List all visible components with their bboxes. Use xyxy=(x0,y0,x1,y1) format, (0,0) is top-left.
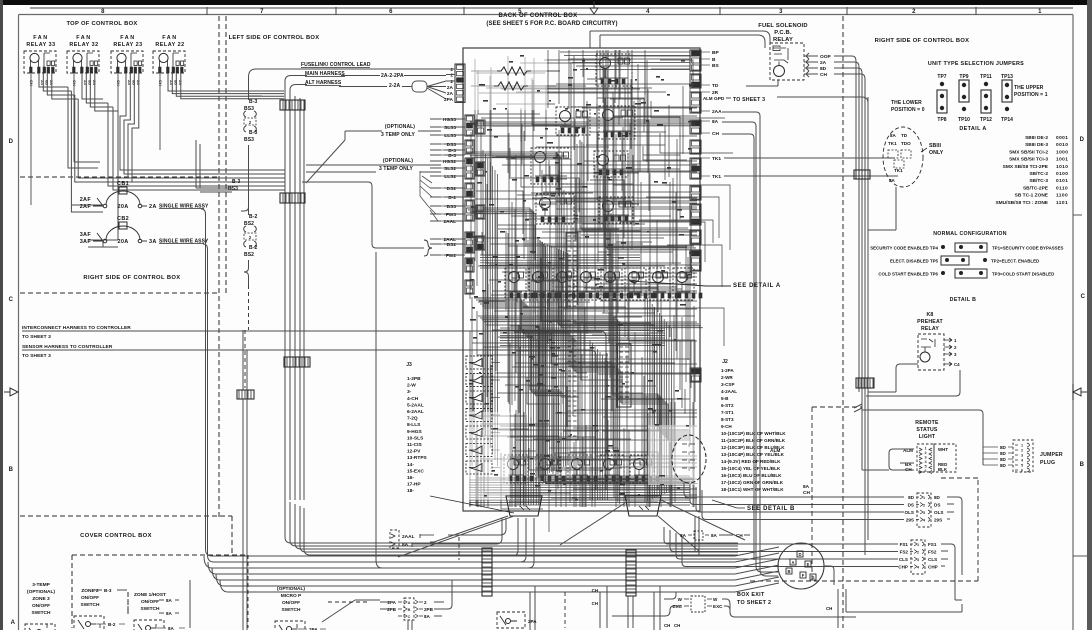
svg-text:POSITION = 0: POSITION = 0 xyxy=(891,107,925,113)
svg-text:0101: 0101 xyxy=(1056,178,1068,184)
connector J-left 12 xyxy=(476,236,485,250)
connector J-left 1 xyxy=(465,115,474,136)
svg-text:TO SHEET 3: TO SHEET 3 xyxy=(22,353,51,359)
partition dashed vertical right of back box xyxy=(842,16,844,628)
svg-text:8A: 8A xyxy=(890,133,897,138)
relay module K6 xyxy=(536,194,574,224)
svg-text:SB/TC-2PE: SB/TC-2PE xyxy=(1023,185,1049,191)
relay module K2 xyxy=(556,107,590,135)
svg-text:14-(9.3V) RED OF RED/BLK: 14-(9.3V) RED OF RED/BLK xyxy=(721,459,781,464)
svg-text:FAN: FAN xyxy=(162,35,178,41)
switch aux dashed box bottom center xyxy=(497,612,537,628)
svg-text:WHT: WHT xyxy=(938,447,948,452)
connector J-left 5 xyxy=(465,200,474,221)
svg-text:RELAY: RELAY xyxy=(921,326,939,332)
svg-text:11-CIS: 11-CIS xyxy=(407,442,422,448)
svg-text:1001: 1001 xyxy=(1056,157,1068,163)
svg-text:1: 1 xyxy=(1021,444,1023,448)
svg-text:C: C xyxy=(9,297,14,303)
connector J-left 10 xyxy=(476,162,485,176)
svg-text:1101: 1101 xyxy=(1056,200,1068,206)
svg-text:TO SHEET 3: TO SHEET 3 xyxy=(733,97,765,103)
wire 2AAL connector to plug xyxy=(434,518,506,544)
fan relay K33 wire labels xyxy=(29,80,54,86)
svg-text:2: 2 xyxy=(1021,449,1023,453)
svg-text:TK1: TK1 xyxy=(712,156,721,162)
relay module K3 xyxy=(599,106,635,139)
resistor R2 redraw xyxy=(494,82,528,90)
svg-text:BS3: BS3 xyxy=(447,204,457,210)
connector W/EXC inline xyxy=(612,592,856,617)
svg-text:FS1: FS1 xyxy=(900,542,909,547)
wire fuse column vertical xyxy=(244,96,262,285)
svg-text:16-(10C3) BLU OF BLU/BLK: 16-(10C3) BLU OF BLU/BLK xyxy=(721,473,782,478)
svg-text:6-2AAL: 6-2AAL xyxy=(407,409,424,415)
wire SBIII leader xyxy=(921,148,927,152)
wire main bottom bundle xyxy=(204,556,735,592)
svg-text:SMX SB/SII TCI-3: SMX SB/SII TCI-3 xyxy=(1009,157,1048,163)
svg-text:2A: 2A xyxy=(169,80,174,85)
svg-text:8A: 8A xyxy=(402,542,409,548)
svg-text:11-(10C2P) BLK OF GRN/BLK: 11-(10C2P) BLK OF GRN/BLK xyxy=(721,438,786,443)
svg-text:|: | xyxy=(688,458,689,463)
fan relay K30 wire labels xyxy=(158,80,183,86)
jumper TP13/TP14 xyxy=(1001,74,1013,123)
svg-text:2: 2 xyxy=(917,551,919,555)
svg-text:ON/OFF: ON/OFF xyxy=(282,600,300,606)
svg-text:2A: 2A xyxy=(447,91,454,97)
svg-text:2R: 2R xyxy=(712,90,719,96)
svg-text:SMU/SB/SII TCI : ZONE: SMU/SB/SII TCI : ZONE xyxy=(995,200,1048,206)
svg-text:PLUG: PLUG xyxy=(1040,460,1055,466)
connector J-right 6 xyxy=(690,158,701,179)
svg-text:1: 1 xyxy=(923,496,925,500)
svg-text:TP1=SECURITY CODE BYPASSES: TP1=SECURITY CODE BYPASSES xyxy=(992,246,1064,251)
svg-text:1: 1 xyxy=(917,543,919,547)
svg-text:D: D xyxy=(9,139,14,145)
svg-text:CB1: CB1 xyxy=(117,181,129,187)
svg-text:K8: K8 xyxy=(926,312,933,318)
wire J3 list leader xyxy=(430,496,514,513)
svg-text:BP: BP xyxy=(712,50,719,56)
wire CB outputs to right verticals xyxy=(201,209,735,562)
detail B redraw circle xyxy=(672,435,706,483)
wire mesh top feeders xyxy=(548,50,690,151)
svg-text:RIGHT SIDE OF CONTROL BOX: RIGHT SIDE OF CONTROL BOX xyxy=(83,275,180,281)
svg-text:REMOTE: REMOTE xyxy=(915,420,939,426)
svg-text:CH: CH xyxy=(592,601,598,606)
SBIII only dashed ellipse xyxy=(883,127,923,187)
svg-text:POSITION = 1: POSITION = 1 xyxy=(1014,92,1048,98)
node labels jumper plug 8D xyxy=(983,445,1013,468)
wire 8D conn right loops xyxy=(947,497,962,575)
svg-text:B-3: B-3 xyxy=(249,99,257,105)
connector J-left 4 xyxy=(465,183,474,197)
wire R33 to breakers xyxy=(71,205,118,247)
wire box exit right drop xyxy=(824,566,834,585)
svg-text:SBIII: SBIII xyxy=(929,143,941,149)
svg-text:8A: 8A xyxy=(166,598,173,603)
svg-text:RELAY 32: RELAY 32 xyxy=(69,42,98,48)
svg-text:3-TEMP: 3-TEMP xyxy=(32,582,50,588)
connector plug J3 (box bottom left) xyxy=(506,496,542,516)
back of control box outline xyxy=(463,48,700,511)
bracket 2AAL group xyxy=(424,240,432,256)
svg-text:BOX EXIT: BOX EXIT xyxy=(737,592,765,598)
svg-text:TDO: TDO xyxy=(901,141,911,146)
svg-text:2-W: 2-W xyxy=(407,383,416,389)
centerline datum top xyxy=(590,1,598,14)
wire mesh dense vertical bundles xyxy=(483,150,671,505)
svg-text:J3: J3 xyxy=(406,362,412,368)
svg-text:B: B xyxy=(787,569,790,574)
switch zone 1/host on/off xyxy=(134,592,185,630)
svg-text:FAN: FAN xyxy=(76,35,92,41)
svg-text:3 TEMP ONLY: 3 TEMP ONLY xyxy=(379,166,413,172)
svg-text:CH: CH xyxy=(158,80,163,86)
svg-text:COVER CONTROL BOX: COVER CONTROL BOX xyxy=(80,533,152,539)
svg-text:SWITCH: SWITCH xyxy=(32,610,51,616)
svg-text:7-ST1: 7-ST1 xyxy=(721,410,734,415)
svg-text:DS: DS xyxy=(934,503,940,508)
svg-text:RELAY 23: RELAY 23 xyxy=(113,42,142,48)
wire mesh back-of-box interior horizontals xyxy=(469,56,697,500)
svg-text:FW2: FW2 xyxy=(446,253,456,259)
connector hatch on trunk low xyxy=(237,390,254,399)
svg-text:2: 2 xyxy=(450,73,453,79)
svg-text:SB/TC-3: SB/TC-3 xyxy=(1029,178,1048,184)
svg-text:B: B xyxy=(712,57,716,63)
svg-text:8A: 8A xyxy=(166,611,173,616)
box exit pins xyxy=(786,551,816,580)
svg-text:CLS: CLS xyxy=(928,557,937,562)
relay fuel solenoid PCB xyxy=(770,43,804,80)
wire optional upper diagonal xyxy=(306,131,441,183)
wire trunk lines to east xyxy=(285,500,738,555)
svg-text:18-(10C1) WHT OF WHT/BLK: 18-(10C1) WHT OF WHT/BLK xyxy=(721,487,784,492)
svg-text:PREHEAT: PREHEAT xyxy=(917,319,943,325)
connector remote status light xyxy=(917,444,956,474)
connector J-right 2 xyxy=(690,74,701,88)
svg-text:TO SHEET 3: TO SHEET 3 xyxy=(22,334,51,340)
svg-text:TP12: TP12 xyxy=(980,117,992,123)
svg-text:CHP: CHP xyxy=(928,565,938,570)
connector hatch on trunk mid xyxy=(280,193,305,203)
relay module KB3 xyxy=(553,268,582,300)
fan relay K31 wire labels xyxy=(116,80,141,86)
svg-text:TP14: TP14 xyxy=(1001,117,1013,123)
svg-text:OLS: OLS xyxy=(934,510,943,515)
fuse F B-2/BS2 lower xyxy=(244,214,258,258)
svg-text:TO SHEET 2: TO SHEET 2 xyxy=(737,600,771,606)
wire see detail B leader xyxy=(712,500,745,508)
connector hatch on trunk upper xyxy=(280,100,305,110)
svg-text:3: 3 xyxy=(924,456,926,460)
svg-text:ON/OFF: ON/OFF xyxy=(141,599,159,605)
svg-text:W: W xyxy=(678,597,683,602)
svg-text:CH: CH xyxy=(712,131,719,137)
relay module KB5 xyxy=(601,268,630,300)
svg-text:3: 3 xyxy=(917,558,919,562)
svg-text:|: | xyxy=(688,442,689,447)
svg-text:TP2=ELECT. ENABLED: TP2=ELECT. ENABLED xyxy=(991,259,1039,264)
svg-text:LLS2: LLS2 xyxy=(444,174,456,180)
svg-text:ZONE 1/HOST: ZONE 1/HOST xyxy=(134,592,166,598)
svg-text:|: | xyxy=(688,450,689,455)
connector J-right 1 xyxy=(690,50,701,71)
svg-text:CH: CH xyxy=(826,606,832,611)
svg-text:16-: 16- xyxy=(407,475,414,481)
svg-text:FAN: FAN xyxy=(120,35,136,41)
sheet left scan bar xyxy=(0,0,3,630)
svg-text:8D: 8D xyxy=(1000,451,1007,456)
relay module KC2 xyxy=(536,455,565,483)
svg-text:9-HGS: 9-HGS xyxy=(407,429,422,435)
node list J3 xyxy=(406,362,427,494)
svg-text:2A-2-2PA: 2A-2-2PA xyxy=(381,73,404,79)
connector J-right 5 xyxy=(690,140,701,154)
wire optional lower xyxy=(306,165,441,172)
svg-text:ZONE 3: ZONE 3 xyxy=(32,596,50,602)
wire trunk jog xyxy=(854,404,862,412)
svg-text:0010: 0010 xyxy=(1056,142,1068,148)
svg-text:SB TC-1 ZONE: SB TC-1 ZONE xyxy=(1015,193,1049,199)
svg-text:1-2PB: 1-2PB xyxy=(407,376,421,382)
svg-text:8: 8 xyxy=(101,9,105,15)
connector box entry top-left xyxy=(455,64,465,102)
sheet top scan bar xyxy=(0,0,1092,5)
relay module KB8 xyxy=(673,268,702,300)
svg-text:BS3: BS3 xyxy=(228,186,238,192)
svg-text:B-3: B-3 xyxy=(249,130,257,136)
svg-text:FS2: FS2 xyxy=(900,550,909,555)
relay module K4 xyxy=(531,148,571,184)
svg-text:8D: 8D xyxy=(1000,463,1007,468)
svg-text:B-3: B-3 xyxy=(232,179,240,185)
svg-text:2: 2 xyxy=(424,600,427,605)
svg-text:DS: DS xyxy=(908,503,914,508)
svg-text:ALT HARNESS: ALT HARNESS xyxy=(305,80,342,86)
svg-text:CH: CH xyxy=(674,623,680,628)
svg-text:TD: TD xyxy=(901,133,908,138)
svg-text:B-3: B-3 xyxy=(104,588,112,593)
svg-text:MICRO P: MICRO P xyxy=(281,593,302,599)
svg-text:CH: CH xyxy=(803,490,810,496)
config row elect disabled xyxy=(890,256,1039,265)
svg-text:C: C xyxy=(1081,294,1086,300)
svg-text:TD: TD xyxy=(712,83,719,89)
svg-text:3: 3 xyxy=(923,511,925,515)
svg-text:2A: 2A xyxy=(127,80,132,85)
connector J-left 11 xyxy=(476,205,485,219)
svg-text:DETAIL B: DETAIL B xyxy=(950,297,977,303)
svg-text:0100: 0100 xyxy=(1056,171,1068,177)
svg-text:DS3: DS3 xyxy=(447,142,457,148)
svg-text:OOP: OOP xyxy=(820,54,831,60)
svg-text:EXC: EXC xyxy=(713,604,723,609)
svg-text:RELAY 33: RELAY 33 xyxy=(26,42,55,48)
connector J-right 10 xyxy=(690,250,701,271)
connector J-right 4 xyxy=(690,120,701,134)
wire mesh back-of-box interior verticals xyxy=(470,56,694,507)
svg-text:(SEE SHEET 5 FOR P.C. BOARD CI: (SEE SHEET 5 FOR P.C. BOARD CIRCUITRY) xyxy=(486,21,617,27)
svg-text:CLS: CLS xyxy=(899,557,908,562)
connector J-right 8 xyxy=(690,204,701,225)
wire mesh elbows xyxy=(476,60,733,532)
connector J-left 9 xyxy=(476,120,485,134)
svg-text:LEFT SIDE OF CONTROL BOX: LEFT SIDE OF CONTROL BOX xyxy=(229,35,320,41)
wire sensor harness xyxy=(22,350,596,490)
connector 8A-8A inline xyxy=(680,531,750,540)
svg-text:W: W xyxy=(713,597,718,602)
svg-text:TP9: TP9 xyxy=(959,74,968,80)
svg-text:HGS3: HGS3 xyxy=(443,117,456,123)
svg-text:8D: 8D xyxy=(1000,457,1007,462)
dashed boundary lower right xyxy=(750,407,978,581)
detail B dashed circle xyxy=(672,435,706,483)
svg-text:(OPTIONAL): (OPTIONAL) xyxy=(277,586,305,592)
relay module K7 xyxy=(599,197,633,223)
wire stair band xyxy=(474,298,690,440)
svg-text:ALM: ALM xyxy=(770,448,780,454)
svg-text:CH: CH xyxy=(29,80,34,86)
table unit type codes xyxy=(995,135,1068,206)
svg-text:RIGHT SIDE OF CONTROL BOX: RIGHT SIDE OF CONTROL BOX xyxy=(875,38,970,44)
partition dashed cover box left xyxy=(72,555,128,628)
svg-text:15-(10C4) YEL OF YEL/BLK: 15-(10C4) YEL OF YEL/BLK xyxy=(721,466,781,471)
jumper TP7/TP8 xyxy=(937,74,947,123)
svg-text:17-HP: 17-HP xyxy=(407,482,421,488)
wire remote light loop xyxy=(862,449,914,470)
svg-text:ALM: ALM xyxy=(703,96,713,101)
svg-text:8-ST3: 8-ST3 xyxy=(721,417,734,422)
wire bundle fan relays cascade xyxy=(39,73,285,240)
svg-text:STATUS: STATUS xyxy=(916,427,938,433)
svg-text:18-: 18- xyxy=(407,488,414,494)
wire mesh ribbon bundle center xyxy=(469,240,690,505)
connector FS1/FS2/CLS/CHP xyxy=(898,540,937,574)
wire J-left strips to box xyxy=(444,119,465,255)
svg-text:B: B xyxy=(9,467,14,473)
svg-text:TK1: TK1 xyxy=(894,168,903,173)
config row security code xyxy=(870,243,1063,252)
svg-text:20A: 20A xyxy=(118,204,129,210)
fan relay K30 xyxy=(153,51,185,73)
resistor R1 redraw xyxy=(497,67,531,75)
wire bundle fan into circle xyxy=(735,547,779,592)
svg-text:ON/OFF: ON/OFF xyxy=(81,595,99,601)
svg-text:(OPTIONAL): (OPTIONAL) xyxy=(385,124,415,130)
sheet right scan bar xyxy=(1087,0,1092,630)
detail B contents xyxy=(682,442,695,471)
jumper TP9/TP10 xyxy=(958,74,970,123)
svg-text:A: A xyxy=(791,560,794,565)
node labels right of box xyxy=(701,50,722,180)
svg-text:RELAY: RELAY xyxy=(773,37,793,43)
svg-text:15-EXC: 15-EXC xyxy=(407,468,424,474)
svg-text:SWITCH: SWITCH xyxy=(282,607,301,613)
wire fuse upper hook xyxy=(241,207,249,211)
svg-text:3 TEMP ONLY: 3 TEMP ONLY xyxy=(381,132,415,138)
strain relief loop xyxy=(412,81,427,92)
wire trunk junction top xyxy=(196,140,232,192)
svg-text:7: 7 xyxy=(260,9,264,15)
zone tick right border xyxy=(1073,215,1087,556)
wire resistor feeds xyxy=(471,71,560,86)
svg-text:2: 2 xyxy=(450,79,453,85)
connector 8D/DS/OLS/29S xyxy=(905,493,944,527)
node labels left of box xyxy=(441,117,456,259)
wire fuselink lead from fuse column xyxy=(249,69,447,96)
relay module K1 xyxy=(596,54,632,86)
svg-text:3: 3 xyxy=(779,9,783,15)
wire cover area feeds xyxy=(189,580,191,628)
svg-text:LLS3: LLS3 xyxy=(444,133,456,139)
svg-text:8A: 8A xyxy=(712,119,719,125)
svg-text:8A: 8A xyxy=(711,533,718,538)
centerline arrow right margin xyxy=(1073,384,1087,400)
svg-text:UNIT TYPE SELECTION JUMPERS: UNIT TYPE SELECTION JUMPERS xyxy=(928,61,1024,67)
svg-text:RELAY 22: RELAY 22 xyxy=(155,42,184,48)
diode column D1-D7 xyxy=(466,356,500,474)
relay module KB6 xyxy=(625,268,654,300)
svg-text:(OPTIONAL): (OPTIONAL) xyxy=(383,158,413,164)
svg-text:2A: 2A xyxy=(820,60,827,66)
svg-text:4-CH: 4-CH xyxy=(407,396,419,402)
wire multi-conductor bus routes xyxy=(466,152,703,328)
svg-text:B: B xyxy=(408,608,411,612)
connector 2AAL/8A inline xyxy=(390,530,434,548)
svg-text:COLD START ENABLED TP6: COLD START ENABLED TP6 xyxy=(878,272,938,277)
svg-text:B-2: B-2 xyxy=(108,622,116,627)
svg-text:SB/TC-2: SB/TC-2 xyxy=(1029,171,1048,177)
node labels entry 2/2/2/2A/2A/2PA xyxy=(444,67,454,103)
fuse F B-3/BS3 upper xyxy=(244,99,258,143)
svg-text:SEE DETAIL A: SEE DETAIL A xyxy=(733,283,781,289)
svg-text:FW3: FW3 xyxy=(446,212,456,218)
wire fuel outputs to right trunk xyxy=(834,56,865,79)
wire box outputs to right trunk xyxy=(722,112,778,576)
wire trunk low vertical xyxy=(243,330,247,630)
svg-text:INTERCONNECT HARNESS TO CONTRO: INTERCONNECT HARNESS TO CONTROLLER xyxy=(22,325,131,331)
connector jumper plug xyxy=(1013,440,1033,473)
svg-text:ELECT. DISABLED TP5: ELECT. DISABLED TP5 xyxy=(890,259,939,264)
svg-text:CH: CH xyxy=(72,80,77,86)
svg-text:SBIII DE-2: SBIII DE-2 xyxy=(1025,135,1048,141)
connector header P1 (long) xyxy=(566,233,578,440)
svg-text:SBIII DE-3: SBIII DE-3 xyxy=(1025,142,1048,148)
connector J-right 3 xyxy=(690,92,701,113)
wire jumper plug feed xyxy=(982,446,984,465)
svg-text:ON/OFF: ON/OFF xyxy=(32,603,50,609)
wire FS conn feeds xyxy=(664,527,898,567)
relay module KB4 xyxy=(577,268,606,300)
scan light patches xyxy=(466,52,698,500)
svg-text:THE UPPER: THE UPPER xyxy=(1014,85,1044,91)
node list J2 xyxy=(721,359,786,492)
svg-text:BLK: BLK xyxy=(938,467,948,472)
svg-text:8D: 8D xyxy=(1000,445,1007,450)
svg-text:GPD: GPD xyxy=(714,96,725,102)
svg-text:DS2: DS2 xyxy=(447,186,457,192)
SBIII only contents xyxy=(888,133,911,183)
partition dashed horizontal y293 xyxy=(20,292,219,294)
svg-text:D: D xyxy=(798,552,801,557)
svg-text:17-(10C2) GRN OF GRN/BLK: 17-(10C2) GRN OF GRN/BLK xyxy=(721,480,784,485)
wire plug fanout right xyxy=(560,500,745,556)
wire K8 to trunk xyxy=(868,364,918,392)
svg-text:2PB: 2PB xyxy=(424,607,434,612)
